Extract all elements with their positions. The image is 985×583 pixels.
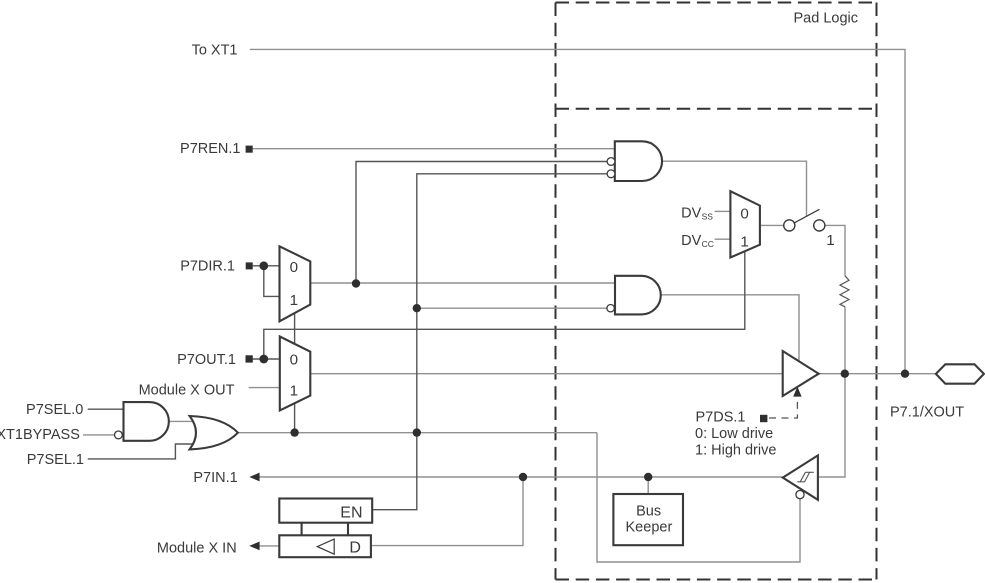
svg-text:1: 1 (290, 382, 298, 399)
svg-text:P7DS.1: P7DS.1 (696, 410, 746, 426)
svg-text:DV: DV (681, 233, 701, 249)
svg-text:DV: DV (681, 206, 701, 222)
svg-text:Pad Logic: Pad Logic (794, 11, 859, 27)
svg-text:P7SEL.0: P7SEL.0 (26, 402, 83, 418)
svg-text:1: 1 (826, 232, 834, 249)
svg-text:0: 0 (740, 206, 748, 223)
svg-text:Module X OUT: Module X OUT (139, 382, 235, 398)
svg-text:XT1BYPASS: XT1BYPASS (0, 427, 80, 443)
svg-text:To XT1: To XT1 (192, 43, 238, 59)
svg-text:P7IN.1: P7IN.1 (193, 470, 237, 486)
svg-text:Module X IN: Module X IN (157, 541, 237, 557)
svg-text:P7.1/XOUT: P7.1/XOUT (890, 404, 964, 420)
svg-text:EN: EN (340, 504, 362, 521)
svg-text:1: High drive: 1: High drive (695, 443, 776, 459)
svg-text:Bus: Bus (636, 504, 661, 520)
svg-text:0: 0 (290, 259, 298, 276)
svg-text:1: 1 (290, 292, 298, 309)
svg-text:0: 0 (290, 352, 298, 369)
svg-text:P7DIR.1: P7DIR.1 (180, 259, 235, 275)
svg-text:P7REN.1: P7REN.1 (180, 141, 240, 157)
svg-text:Keeper: Keeper (626, 519, 673, 535)
svg-text:P7SEL.1: P7SEL.1 (27, 452, 84, 468)
svg-text:CC: CC (702, 239, 714, 249)
svg-text:P7OUT.1: P7OUT.1 (177, 352, 236, 368)
svg-text:0: Low drive: 0: Low drive (695, 426, 773, 442)
svg-text:SS: SS (702, 212, 714, 222)
svg-text:D: D (349, 539, 361, 556)
svg-text:1: 1 (740, 233, 748, 250)
